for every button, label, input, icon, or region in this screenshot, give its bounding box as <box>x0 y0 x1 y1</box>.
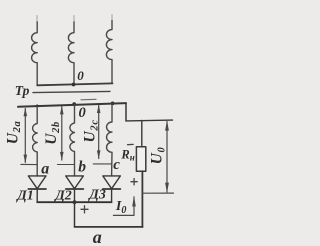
cathode bus <box>37 201 111 203</box>
bottom rail <box>75 226 143 228</box>
svg-text:0: 0 <box>79 105 86 121</box>
top right rail <box>126 119 173 122</box>
svg-text:b: b <box>78 159 86 176</box>
svg-text:Д1: Д1 <box>15 188 34 203</box>
svg-text:а: а <box>93 227 102 246</box>
secondary winding a <box>33 107 38 176</box>
node a junction <box>36 105 39 108</box>
primary lead tick B <box>73 16 75 24</box>
node b junction <box>72 102 76 106</box>
svg-text:Тр: Тр <box>15 83 30 98</box>
svg-text:a: a <box>41 160 49 177</box>
extension tick a <box>21 163 37 165</box>
wire D2 cathode <box>74 189 76 202</box>
diode D2 <box>66 176 84 189</box>
primary winding C <box>106 21 112 84</box>
wire Rn bottom <box>141 171 143 227</box>
svg-text:Д3: Д3 <box>87 188 106 203</box>
secondary bus 0 <box>18 103 126 107</box>
voltage arrow U2b <box>61 107 63 160</box>
bus corner right <box>125 103 127 121</box>
voltage arrow U2c <box>98 105 100 158</box>
primary lead tick A <box>36 16 38 24</box>
voltage arrow U2a <box>24 109 26 163</box>
U0 dimension arrow <box>166 122 168 193</box>
wire D1 cathode <box>36 189 38 202</box>
wire D3 cathode <box>111 189 113 202</box>
secondary winding b <box>70 105 75 176</box>
wire Rn top <box>141 121 143 147</box>
primary winding A <box>32 22 38 85</box>
core line dash <box>81 98 96 101</box>
U0 bottom extension <box>142 192 173 194</box>
primary star bus <box>37 83 112 85</box>
junction star point <box>72 83 76 87</box>
node c junction <box>111 102 115 106</box>
svg-text:Д2: Д2 <box>53 188 72 203</box>
extension tick c <box>93 163 112 165</box>
secondary winding c <box>107 103 112 175</box>
resistor Rn body <box>136 147 145 171</box>
junction output <box>73 200 77 204</box>
extension tick b <box>57 164 74 166</box>
svg-text:0: 0 <box>77 68 84 83</box>
core line <box>33 91 110 92</box>
plus polarity Rn <box>131 179 137 185</box>
primary winding B <box>68 22 74 84</box>
diode D1 <box>28 176 46 189</box>
minus polarity Rn <box>128 143 134 145</box>
primary lead tick C <box>111 15 113 23</box>
svg-text:c: c <box>113 157 120 173</box>
I0 current arrow <box>113 197 134 216</box>
wire output drop <box>74 202 76 227</box>
diode D3 <box>103 176 121 189</box>
plus polarity bus <box>81 206 88 213</box>
